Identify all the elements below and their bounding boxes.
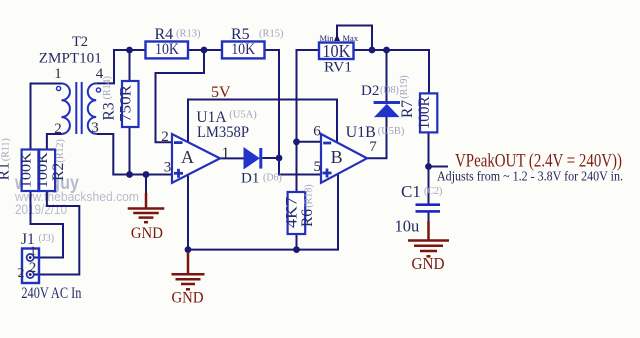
svg-text:(J3): (J3) <box>39 233 55 244</box>
node D1 output <box>276 155 283 162</box>
wire T2 pin2 to R2 <box>47 134 62 150</box>
resistor R4 <box>146 42 189 59</box>
wire U1A output to D1 <box>220 157 244 159</box>
svg-text:1: 1 <box>54 66 62 82</box>
wire RV1 wiper loop <box>337 26 372 51</box>
plus mark U1B <box>323 169 332 178</box>
node U1B pin6 <box>293 138 300 145</box>
svg-text:LM358P: LM358P <box>197 124 249 141</box>
svg-text:4K7: 4K7 <box>284 197 301 228</box>
svg-text:(U5B): (U5B) <box>378 126 405 137</box>
plus mark U1A <box>174 169 183 178</box>
node wiper loop <box>369 47 376 54</box>
svg-text:(R19): (R19) <box>399 75 410 98</box>
svg-text:100K: 100K <box>19 152 35 188</box>
wire RV1 right rail to R7 <box>354 50 430 93</box>
node VPeakOUT <box>425 163 432 170</box>
svg-text:(D8): (D8) <box>380 85 399 96</box>
ground GND3 <box>408 221 449 256</box>
wire feedback R4R5 junction to U1A pin2 <box>156 50 205 142</box>
wire D2 bottom to U1B output <box>367 116 387 158</box>
svg-text:100K: 100K <box>35 152 51 188</box>
wire pin3 rail to U1A plus input <box>96 134 172 175</box>
diode D2 <box>374 101 400 117</box>
wire pin6 stub <box>297 141 322 143</box>
svg-text:(R12): (R12) <box>55 139 66 162</box>
wire R3 bottom <box>129 127 131 175</box>
svg-text:5V: 5V <box>211 84 231 101</box>
svg-text:750R: 750R <box>118 85 135 122</box>
node D2 branch <box>383 47 390 54</box>
resistor R6 <box>288 192 306 234</box>
svg-text:(R13): (R13) <box>176 29 201 40</box>
svg-text:GND: GND <box>412 254 445 273</box>
svg-text:ZMPT101: ZMPT101 <box>39 51 102 67</box>
svg-text:10u: 10u <box>395 217 420 236</box>
wire 5V rail <box>188 100 337 144</box>
resistor R2 <box>39 150 55 192</box>
node GND1 tap <box>143 171 150 178</box>
wire R1 bottom to J1 pin1 <box>31 191 64 258</box>
minus mark U1A <box>174 141 183 144</box>
wire pin4 to top rail <box>96 50 145 83</box>
potentiometer RV1 <box>319 34 354 59</box>
wire C1 bottom <box>428 213 430 222</box>
svg-text:R7: R7 <box>399 100 416 118</box>
svg-text:C1: C1 <box>401 182 421 201</box>
minus mark U1B <box>323 142 331 145</box>
wire GND1 drop blue part <box>145 175 147 194</box>
node R4/R5 junction <box>201 47 208 54</box>
svg-text:R6: R6 <box>299 209 316 227</box>
svg-text:(C2): (C2) <box>424 186 442 197</box>
svg-text:R4: R4 <box>155 26 174 43</box>
svg-text:GND: GND <box>131 225 163 242</box>
wire R7 bottom to VPeakOUT node <box>428 132 430 166</box>
svg-text:(R15): (R15) <box>259 29 284 40</box>
node pin4/R3 junction <box>126 47 133 54</box>
diode D1 <box>244 148 262 169</box>
svg-text:T2: T2 <box>72 34 88 50</box>
wire VPeakOUT stub <box>429 166 449 168</box>
ground GND2 <box>172 252 205 289</box>
svg-text:(R18): (R18) <box>304 184 315 207</box>
svg-text:R3: R3 <box>101 102 118 120</box>
svg-text:10K: 10K <box>322 41 350 61</box>
svg-text:240V AC In: 240V AC In <box>21 285 81 302</box>
svg-text:1: 1 <box>30 243 37 258</box>
capacitor C1 <box>416 203 441 212</box>
node V- rail GND2 <box>185 246 192 253</box>
resistor R1 <box>22 150 39 192</box>
wire R4 to R5 <box>188 49 222 51</box>
resistor R5 <box>222 42 265 59</box>
svg-text:Adjusts from ~ 1.2 - 3.8V for: Adjusts from ~ 1.2 - 3.8V for 240V in. <box>437 169 623 184</box>
svg-text:B: B <box>331 147 343 167</box>
svg-text:5: 5 <box>314 159 322 175</box>
svg-text:(U5A): (U5A) <box>229 110 257 121</box>
wire D2 anode branch <box>386 50 388 101</box>
wire D1 node to U1B pin5 <box>279 158 321 175</box>
op-amp U1B <box>321 134 367 183</box>
svg-text:3: 3 <box>91 120 99 136</box>
svg-text:2: 2 <box>54 121 62 137</box>
node R6 bottom <box>293 246 300 253</box>
resistor R3 <box>122 81 139 127</box>
svg-text:RV1: RV1 <box>324 59 352 75</box>
wire R6 bottom <box>296 234 298 250</box>
connector J1 <box>22 249 39 284</box>
wire D1 cathode to node <box>262 157 279 159</box>
svg-text:7: 7 <box>369 139 377 155</box>
svg-text:(R11): (R11) <box>1 138 12 161</box>
svg-text:2: 2 <box>161 129 169 145</box>
wire R3 top <box>129 50 131 81</box>
wire R2 bottom to J1 pin2 <box>34 191 79 275</box>
svg-text:2: 2 <box>18 265 25 280</box>
svg-text:R5: R5 <box>231 26 250 43</box>
svg-text:R2: R2 <box>50 163 67 181</box>
transformer T2 <box>57 82 101 134</box>
svg-text:(R14): (R14) <box>102 76 113 99</box>
svg-text:3: 3 <box>164 159 172 175</box>
wire ground rail U1A to U1B <box>188 174 338 249</box>
wire node to C1 <box>428 167 430 204</box>
wire R5 right down to D1 node <box>265 50 280 158</box>
node R3 bottom <box>126 171 133 178</box>
svg-text:2: 2 <box>29 260 37 276</box>
svg-text:GND: GND <box>172 290 204 307</box>
node junction dots <box>126 47 432 253</box>
resistor R7 <box>420 93 437 132</box>
svg-text:D1: D1 <box>241 171 259 187</box>
svg-text:10K: 10K <box>231 41 255 58</box>
svg-text:10K: 10K <box>155 41 179 58</box>
svg-text:R1: R1 <box>0 162 13 180</box>
svg-text:D2: D2 <box>361 83 379 99</box>
svg-text:6: 6 <box>313 124 321 140</box>
svg-text:Min: Min <box>320 33 335 43</box>
svg-text:A: A <box>181 147 194 167</box>
svg-text:Max: Max <box>343 33 359 43</box>
op-amp U1A <box>172 134 220 183</box>
svg-text:100R: 100R <box>416 96 433 129</box>
ground GND1 <box>128 193 165 222</box>
svg-text:2019/2/10: 2019/2/10 <box>15 201 67 217</box>
wire T2 pin1 to R1 <box>31 84 62 150</box>
svg-text:1: 1 <box>222 145 230 162</box>
svg-text:(D6): (D6) <box>263 173 282 184</box>
wire pin6 vertical RV1-left to R6 <box>297 50 320 192</box>
